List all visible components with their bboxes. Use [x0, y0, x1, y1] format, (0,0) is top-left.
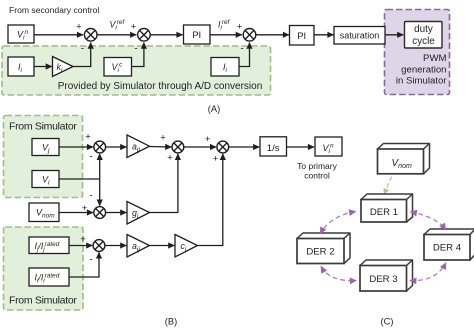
svg-text:PWM: PWM	[423, 53, 446, 64]
svg-text:+: +	[80, 234, 86, 245]
wire PI1 to sum3	[210, 34, 242, 36]
wire sumB2 to gain gi	[106, 212, 127, 214]
svg-text:cycle: cycle	[412, 36, 435, 47]
gain aij1 (triangle)	[127, 135, 150, 158]
summing junction sum3	[243, 29, 256, 42]
svg-text:saturation: saturation	[340, 31, 380, 41]
block Vic	[104, 58, 132, 77]
block Vin (secondary input)	[8, 25, 34, 43]
wire Vin to sum1	[34, 34, 83, 36]
svg-text:1/s: 1/s	[267, 143, 280, 154]
summing junction sumB3	[93, 240, 105, 252]
svg-text:+: +	[167, 153, 173, 164]
svg-text:PI: PI	[192, 30, 201, 41]
svg-text:(C): (C)	[381, 317, 394, 327]
svg-text:DER 4: DER 4	[433, 243, 462, 254]
wire Ii to sum3 (bottom)	[239, 43, 250, 67]
arrow Vnom to DER1 (green dashed)	[384, 177, 392, 195]
gain ki (triangle)	[53, 57, 74, 77]
svg-text:-: -	[81, 44, 84, 55]
block Vi	[32, 171, 59, 188]
svg-text:-: -	[240, 44, 243, 55]
svg-text:+: +	[213, 154, 219, 165]
svg-text:(A): (A)	[208, 104, 220, 114]
svg-text:-: -	[89, 191, 92, 202]
svg-text:From secondary control: From secondary control	[9, 5, 99, 15]
block DER2 (3D box)	[297, 233, 350, 264]
link DER1-DER2 (purple dashed)	[320, 212, 356, 235]
summing junction sumB2	[94, 207, 106, 219]
block DER3 (3D box)	[360, 260, 413, 291]
svg-text:From Simulator: From Simulator	[9, 120, 77, 132]
block Vnom (3D box)	[378, 144, 430, 174]
block Vin output	[315, 137, 342, 156]
region: From Simulator bottom (green dashed)	[4, 227, 84, 310]
wire aij1 to sumB4	[150, 146, 172, 149]
block DER1 (3D box)	[361, 194, 413, 222]
wire sum3 to PI2	[256, 34, 289, 36]
region: From Simulator top (green dashed)	[4, 116, 83, 198]
wire sum2 to PI1	[150, 34, 182, 36]
svg-text:PI: PI	[297, 31, 306, 42]
gain gi (triangle)	[127, 202, 150, 225]
svg-text:+: +	[237, 22, 243, 33]
gain ci (triangle)	[175, 235, 198, 258]
wire sumB3 to gain aij2	[105, 245, 126, 247]
summing junction sumB4	[172, 141, 184, 153]
wire saturation to duty cycle	[385, 34, 403, 36]
svg-text:+: +	[160, 133, 166, 144]
svg-text:DER 3: DER 3	[369, 274, 397, 285]
svg-text:Iiref: Iiref	[218, 19, 231, 32]
block Vnom	[29, 203, 59, 222]
block Ii (A/D input 1)	[8, 57, 34, 76]
wire ci to sumB5 bottom	[198, 154, 223, 246]
svg-text:-: -	[89, 255, 92, 266]
block Ii/Iirated	[29, 268, 69, 286]
summing junction sum1	[84, 29, 97, 42]
block DER4 (3D box)	[424, 229, 474, 260]
wire Vic to sum2 (bottom)	[132, 43, 144, 67]
wire Vi to sumB1 and sumB2	[59, 178, 100, 180]
wire sum1 to sum2	[97, 34, 136, 36]
summing junction sumB1	[94, 141, 106, 153]
block Ij/Ijrated	[29, 237, 69, 254]
block saturation	[334, 27, 385, 45]
block integrator 1/s	[260, 137, 287, 156]
svg-text:DER 2: DER 2	[306, 247, 334, 258]
svg-text:in Simulator: in Simulator	[396, 76, 447, 87]
link DER2-DER3 (purple dashed)	[321, 267, 357, 281]
wire Ii to gain ki	[34, 66, 52, 68]
wire Vj to sumB1	[59, 146, 93, 148]
wire Ij to sumB3	[69, 245, 92, 247]
block PI2	[290, 26, 315, 46]
svg-text:+: +	[85, 132, 91, 143]
wire sumB4 to sumB5	[184, 146, 216, 148]
wire PI2 to saturation	[314, 34, 334, 36]
svg-text:-: -	[134, 44, 137, 55]
region: PWM generation in Simulator (purple dashed)	[385, 10, 450, 95]
wire Vnom to sumB2	[59, 212, 93, 214]
svg-text:+: +	[76, 22, 82, 33]
wire ki to sum1 (bottom)	[73, 43, 91, 67]
svg-text:From Simulator: From Simulator	[9, 295, 77, 307]
svg-text:(B): (B)	[165, 317, 177, 327]
wire sumB5 to integrator	[229, 146, 260, 148]
region: Provided by Simulator through A/D conversion (green dashed)	[2, 46, 271, 95]
svg-text:duty: duty	[414, 24, 433, 35]
block Ii (A/D input 2)	[211, 58, 239, 77]
svg-text:DER 1: DER 1	[370, 207, 398, 218]
svg-text:To primary: To primary	[297, 161, 337, 171]
summing junction sumB5	[217, 141, 229, 153]
svg-text:+: +	[205, 134, 211, 145]
gain aij2 (triangle)	[127, 235, 150, 258]
summing junction sum2	[138, 29, 151, 42]
block Vj	[32, 139, 59, 156]
svg-text:control: control	[304, 171, 330, 181]
wire integrator to Vin output	[287, 146, 315, 148]
svg-text:-: -	[89, 152, 92, 163]
svg-text:Viref: Viref	[110, 19, 126, 32]
svg-text:generation: generation	[401, 64, 446, 75]
svg-text:+: +	[131, 22, 137, 33]
svg-text:Provided by Simulator through: Provided by Simulator through A/D conver…	[58, 81, 263, 92]
link DER3-DER4 (purple dashed)	[410, 263, 446, 281]
wire sumB1 to gain aij1	[106, 146, 127, 148]
block PI1	[184, 25, 211, 44]
wire aij2 to gain ci	[150, 245, 175, 247]
block duty cycle	[405, 22, 443, 49]
wire gi to sumB4 bottom	[150, 154, 178, 213]
wire Ii to sumB3 bottom	[69, 252, 99, 277]
svg-text:+: +	[82, 203, 88, 214]
link DER1-DER4 (purple dashed)	[411, 212, 447, 230]
